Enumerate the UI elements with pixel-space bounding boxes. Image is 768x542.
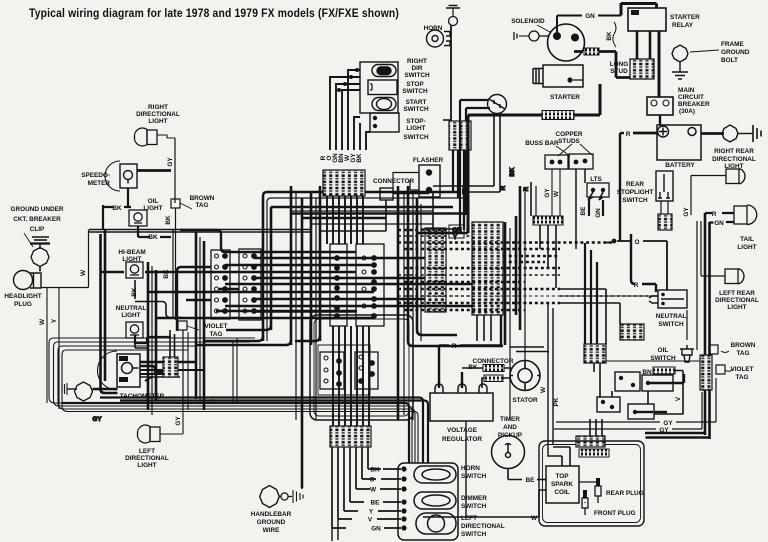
svg-text:DIRECTIONAL: DIRECTIONAL [712, 156, 756, 163]
solenoid coil hatch to long stud wire [584, 48, 599, 55]
tach step wires [140, 366, 163, 381]
svg-text:LIGHT: LIGHT [143, 205, 162, 212]
verticals to tach connector [170, 330, 175, 357]
svg-text:BROWN: BROWN [190, 195, 215, 202]
svg-text:CLIP: CLIP [30, 226, 45, 233]
starter M1 [533, 65, 583, 87]
LTS rear stop lamp connector [587, 183, 609, 197]
tach loop right verticals [233, 338, 237, 403]
svg-text:GY: GY [175, 416, 182, 426]
tach loop horizontals [49, 338, 418, 463]
handlebar switch block lower [398, 463, 458, 540]
svg-text:DIRECTIONAL: DIRECTIONAL [715, 297, 759, 304]
rear plug [595, 486, 601, 503]
svg-text:RIGHT: RIGHT [407, 58, 427, 65]
headlight plug [14, 271, 42, 290]
svg-text:TIMER: TIMER [500, 416, 520, 423]
svg-text:SWITCH: SWITCH [403, 134, 429, 141]
starter relay U1 [628, 8, 666, 31]
svg-text:SWITCH: SWITCH [622, 197, 648, 204]
svg-text:RELAY: RELAY [672, 22, 694, 29]
main circuit breaker CB1 [647, 97, 673, 115]
ground + hexagon at tachometer [62, 382, 118, 401]
svg-text:LIGHT: LIGHT [148, 118, 167, 125]
svg-text:SWITCH: SWITCH [461, 473, 487, 480]
stator [510, 361, 540, 391]
svg-text:STARTER: STARTER [670, 14, 700, 21]
stoplight switch box [370, 113, 399, 132]
svg-text:RIGHT REAR: RIGHT REAR [714, 148, 754, 155]
svg-text:GN: GN [714, 220, 724, 227]
svg-text:BOLT: BOLT [721, 57, 738, 64]
svg-text:FLASHER: FLASHER [413, 157, 444, 164]
svg-text:GROUND UNDER: GROUND UNDER [11, 206, 64, 213]
solenoid ground and terminal [514, 31, 548, 41]
svg-text:R: R [634, 282, 639, 289]
svg-text:VOLTAGE: VOLTAGE [447, 427, 478, 434]
svg-text:Y: Y [453, 234, 458, 241]
right trunk verticals [700, 221, 702, 276]
violet tag (left) [178, 321, 187, 330]
connector block mid right B [584, 344, 606, 363]
spark coil enclosure [539, 441, 644, 526]
svg-text:HORN: HORN [461, 465, 480, 472]
svg-text:GY: GY [663, 420, 673, 427]
second GY drop to left light [187, 332, 189, 410]
in-line connector on starter cable [542, 111, 574, 120]
tach connector block [163, 357, 178, 377]
oil light [129, 210, 147, 226]
relay box right mid 2 [642, 375, 673, 391]
enclosure inner loop [318, 345, 370, 395]
heavy cable down left [468, 115, 514, 233]
mesh dashed rows [398, 230, 652, 310]
svg-text:STARTER: STARTER [550, 94, 580, 101]
svg-text:R: R [626, 131, 631, 138]
connector below rear stoplight switch [658, 214, 672, 230]
wire GN solenoid to relay [557, 16, 582, 33]
ignition enclosure [310, 315, 413, 420]
wire W from coil [526, 490, 546, 517]
left rear directional light [701, 269, 744, 285]
connector strip B [239, 249, 261, 320]
svg-text:V: V [368, 517, 373, 524]
connector feed wires [320, 230, 386, 232]
svg-text:LIGHT: LIGHT [737, 244, 756, 251]
svg-text:MAIN: MAIN [678, 87, 695, 94]
feeds to bottom right strips [590, 419, 602, 436]
svg-text:DIRECTIONAL: DIRECTIONAL [136, 111, 180, 118]
svg-text:CONNECTOR: CONNECTOR [373, 178, 414, 185]
battery ground bolt [701, 132, 724, 135]
svg-text:BK: BK [165, 215, 172, 225]
svg-text:SWITCH: SWITCH [402, 88, 428, 95]
fan wires connector to switch block [332, 447, 381, 528]
svg-text:CKT. BREAKER: CKT. BREAKER [13, 216, 61, 223]
top spark coil [546, 466, 579, 503]
svg-text:REAR: REAR [626, 181, 644, 188]
ignition switch box 2 [355, 352, 378, 389]
wire GY left directional [182, 410, 184, 434]
svg-text:LTS: LTS [590, 176, 602, 183]
wire headlight to W riser [41, 230, 89, 288]
svg-text:TAIL: TAIL [740, 236, 754, 243]
wire from oil switch row [652, 295, 658, 297]
relay box right mid 4 [628, 404, 654, 419]
GY below brown tag [175, 208, 177, 320]
left trunk verticals [148, 232, 204, 415]
connector strip D [356, 244, 384, 326]
svg-text:SWITCH: SWITCH [404, 72, 430, 79]
svg-text:SWITCH: SWITCH [658, 321, 684, 328]
svg-text:PK: PK [553, 397, 560, 406]
wire BK squiggle [613, 22, 616, 47]
right mesh verticals [386, 113, 576, 420]
thin row to right strip [590, 360, 700, 362]
tachometer [98, 351, 141, 390]
svg-text:W: W [540, 386, 547, 393]
tach wires [140, 362, 204, 377]
mesh horizontals [101, 252, 472, 318]
handlebar connector grid upper [323, 170, 365, 196]
svg-text:NEUTRAL: NEUTRAL [656, 313, 687, 320]
wire speedometer to trunk [137, 169, 171, 172]
upper band horizontals [89, 192, 464, 232]
ignition switch symbol [488, 95, 507, 114]
svg-text:Typical wiring diagram for lat: Typical wiring diagram for late 1978 and… [29, 8, 399, 20]
svg-text:COIL: COIL [554, 489, 569, 496]
speedometer [105, 161, 137, 191]
svg-text:BK: BK [370, 467, 380, 474]
relay box right mid 3 [597, 397, 620, 412]
light stubs [135, 280, 183, 348]
svg-text:RIGHT: RIGHT [148, 104, 168, 111]
neutral switch [649, 290, 687, 308]
svg-text:HI-BEAM: HI-BEAM [118, 249, 145, 256]
svg-text:BK: BK [356, 153, 363, 163]
thick bottom line left [62, 403, 409, 463]
svg-text:SWITCH: SWITCH [461, 503, 487, 510]
center vertical trunks [263, 186, 320, 488]
svg-text:GROUND: GROUND [257, 519, 286, 526]
svg-text:DIMMER: DIMMER [461, 495, 487, 502]
svg-text:R: R [500, 185, 507, 190]
W PK into coil enclosure [548, 443, 570, 456]
svg-text:Y: Y [51, 318, 58, 323]
brown tag (left) [171, 199, 180, 208]
svg-text:BK: BK [509, 167, 516, 177]
svg-text:TAG: TAG [735, 374, 748, 381]
svg-text:NEUTRAL: NEUTRAL [116, 305, 147, 312]
svg-text:OIL: OIL [148, 198, 159, 205]
brown tag right [709, 345, 718, 354]
svg-text:GY: GY [167, 157, 174, 167]
wire W and Y drops from headlight [47, 288, 59, 409]
svg-text:GY: GY [659, 427, 669, 434]
svg-text:PLUG: PLUG [14, 301, 32, 308]
left directional light [137, 425, 183, 443]
svg-text:LEFT: LEFT [461, 515, 477, 522]
hi-beam light [126, 262, 143, 278]
svg-text:TAG: TAG [736, 350, 749, 357]
connector strips bottom right of coil [576, 436, 605, 447]
svg-text:BUSS BAR: BUSS BAR [525, 140, 559, 147]
handlebar ground wire [260, 486, 303, 508]
svg-text:O: O [370, 477, 375, 484]
starter cable corner [417, 232, 468, 235]
svg-text:FRAME: FRAME [721, 41, 744, 48]
svg-text:BATTERY: BATTERY [665, 162, 695, 169]
svg-text:W: W [531, 515, 538, 522]
svg-text:W: W [553, 190, 560, 197]
svg-text:FRONT PLUG: FRONT PLUG [594, 510, 636, 517]
svg-text:DIRECTIONAL: DIRECTIONAL [461, 523, 505, 530]
svg-text:W: W [39, 318, 46, 325]
svg-text:START: START [406, 99, 427, 106]
wire BK speedometer [103, 188, 131, 207]
svg-text:WIRE: WIRE [263, 527, 280, 534]
svg-text:W: W [370, 487, 377, 494]
connector strip A left [211, 250, 230, 319]
svg-text:(30A): (30A) [679, 108, 695, 115]
svg-text:TAG: TAG [209, 331, 222, 338]
wire BE timer to coil [508, 469, 522, 480]
svg-text:STATOR: STATOR [512, 397, 538, 404]
svg-text:LONG: LONG [610, 61, 628, 68]
svg-text:HEADLIGHT: HEADLIGHT [4, 293, 41, 300]
svg-text:STOPLIGHT: STOPLIGHT [617, 189, 654, 196]
svg-text:METER: METER [88, 180, 111, 187]
mesh connector strip F [472, 222, 503, 315]
svg-text:TAG: TAG [195, 202, 208, 209]
svg-text:SWITCH: SWITCH [403, 106, 429, 113]
wire GY right directional down [174, 138, 176, 203]
VR drop wire [465, 421, 467, 516]
right directional light [134, 128, 175, 146]
wire flasher to connector [393, 173, 419, 191]
coil enclosure feed [554, 447, 570, 466]
upper band extra [291, 212, 468, 214]
svg-text:GN: GN [585, 13, 595, 20]
thick bottom pair extension [100, 396, 160, 398]
svg-text:DIR: DIR [411, 65, 422, 72]
wires from key switch [460, 100, 488, 230]
tail light [734, 205, 757, 225]
mesh connector strip E [425, 228, 446, 312]
svg-text:BK: BK [131, 287, 138, 297]
svg-text:BE: BE [526, 477, 536, 484]
fan wire tails [332, 519, 338, 541]
svg-text:CONNECTOR: CONNECTOR [472, 358, 513, 365]
svg-text:LIGHT: LIGHT [121, 312, 140, 319]
svg-text:BE: BE [580, 206, 587, 216]
verticals feeding right mid blocks [585, 243, 597, 344]
svg-text:GN: GN [371, 526, 381, 533]
wire R to neutral switch [631, 234, 635, 284]
heavy corner from mesh to coil area [408, 330, 503, 346]
svg-text:BK: BK [112, 205, 122, 212]
key switch circle above horn [449, 17, 458, 26]
stator connector bars [483, 365, 504, 372]
svg-text:BK: BK [148, 234, 158, 241]
wire O to tail [612, 239, 617, 244]
GY long wires [556, 421, 660, 423]
connector block mid right A [620, 324, 644, 340]
svg-text:LEFT: LEFT [139, 448, 155, 455]
svg-text:R: R [523, 186, 530, 191]
flasher wire down [409, 180, 411, 190]
svg-text:W: W [80, 269, 87, 276]
svg-text:SOLENOID: SOLENOID [511, 18, 545, 25]
W PK wires to timer [548, 302, 553, 445]
right dir switch block [360, 62, 398, 113]
svg-text:STOP: STOP [406, 81, 424, 88]
W PK corner stubs [510, 347, 549, 352]
battery BT1 [657, 125, 701, 160]
coil wires to plugs [579, 482, 596, 503]
svg-text:SPARK: SPARK [551, 481, 573, 488]
svg-text:R: R [712, 211, 717, 218]
svg-text:OIL: OIL [658, 347, 669, 354]
svg-text:SPEEDO-: SPEEDO- [81, 172, 110, 179]
connector grid below horn [449, 121, 471, 150]
violet tag GY drop [182, 330, 184, 410]
svg-text:GY: GY [92, 416, 102, 423]
svg-text:O: O [635, 239, 640, 246]
svg-text:VIOLET: VIOLET [730, 366, 753, 373]
svg-text:COPPER: COPPER [556, 131, 583, 138]
relay box right mid 1 [615, 372, 640, 391]
svg-text:STOP-: STOP- [406, 118, 425, 125]
svg-text:V: V [675, 396, 682, 401]
GY wires right extension [676, 378, 716, 422]
svg-text:HANDLEBAR: HANDLEBAR [251, 511, 292, 518]
wires below copper studs [552, 169, 560, 216]
wire horn riser [450, 26, 452, 121]
svg-text:STUDS: STUDS [558, 138, 580, 145]
neutral oil rows right [560, 289, 687, 415]
svg-text:GN: GN [595, 208, 602, 218]
svg-text:LIGHT: LIGHT [727, 304, 746, 311]
svg-text:LIGHT: LIGHT [406, 125, 425, 132]
in-line connector below studs [533, 216, 563, 225]
neutral light [126, 322, 143, 338]
strip F bottom feeds [477, 315, 491, 341]
key switch wires down [433, 185, 494, 187]
voltage regulator VR1 [430, 384, 493, 421]
neutral light loop [135, 335, 171, 343]
front plug [582, 498, 588, 515]
starter heavy cable [514, 84, 600, 115]
switch block pins [401, 466, 406, 530]
svg-text:STUD: STUD [610, 68, 628, 75]
svg-text:AND: AND [503, 424, 517, 431]
O wire into mesh [604, 242, 612, 244]
dashes right of strip F to studs verticals [503, 256, 560, 262]
violet tag right [716, 365, 725, 374]
vertical connector strip right [700, 355, 712, 390]
wire GY to right rear light [690, 176, 692, 216]
svg-text:SWITCH: SWITCH [650, 355, 676, 362]
svg-text:CIRCUIT: CIRCUIT [678, 94, 704, 101]
svg-text:LIGHT: LIGHT [122, 256, 141, 263]
svg-text:TOP: TOP [555, 473, 569, 480]
wire to long pair [102, 205, 104, 229]
ignition switch box 1 [320, 352, 344, 389]
svg-text:GROUND: GROUND [721, 49, 750, 56]
bundle verticals strips to lower connector [333, 326, 369, 426]
svg-text:LEFT REAR: LEFT REAR [719, 290, 755, 297]
svg-text:TACHOMETER: TACHOMETER [120, 393, 165, 400]
frame ground bolt [672, 45, 688, 79]
thin pair to rear lights [696, 221, 698, 350]
bold mesh rows overlay [216, 258, 425, 311]
bottom connector strip [330, 426, 371, 447]
svg-text:GY: GY [544, 188, 551, 198]
svg-text:R: R [452, 343, 457, 350]
svg-text:BE: BE [371, 500, 381, 507]
svg-text:REAR PLUG: REAR PLUG [606, 490, 644, 497]
svg-text:VIOLET: VIOLET [204, 323, 227, 330]
ground above horn [446, 6, 460, 18]
svg-text:BROWN: BROWN [731, 342, 756, 349]
svg-text:BREAKER: BREAKER [678, 101, 710, 108]
second key switch wire [466, 107, 490, 109]
mesh corner weave left [177, 230, 320, 345]
svg-text:DIRECTIONAL: DIRECTIONAL [125, 455, 169, 462]
coil enclosure inner [543, 445, 641, 523]
svg-text:LIGHT: LIGHT [137, 462, 156, 469]
wire BK oil light down [138, 226, 171, 237]
wire R to regulator [439, 346, 449, 389]
handlebar harness to ground [301, 443, 303, 489]
svg-text:GY: GY [683, 207, 690, 217]
bundle verticals grid to strips [327, 196, 363, 244]
long stud connector block [630, 59, 654, 79]
handlebar wire bundle left of switch block [330, 70, 370, 150]
svg-text:BK: BK [606, 31, 613, 41]
svg-text:REGULATOR: REGULATOR [442, 436, 482, 443]
svg-text:BK: BK [163, 269, 170, 279]
connector strip C [330, 244, 347, 326]
svg-text:SWITCH: SWITCH [461, 531, 487, 538]
svg-text:Y: Y [369, 509, 374, 516]
BK trunk pair to tachometer [101, 230, 118, 393]
wire BK to stator connector [461, 372, 463, 388]
bottom thick pair [150, 398, 428, 464]
relay output wires [637, 31, 650, 59]
